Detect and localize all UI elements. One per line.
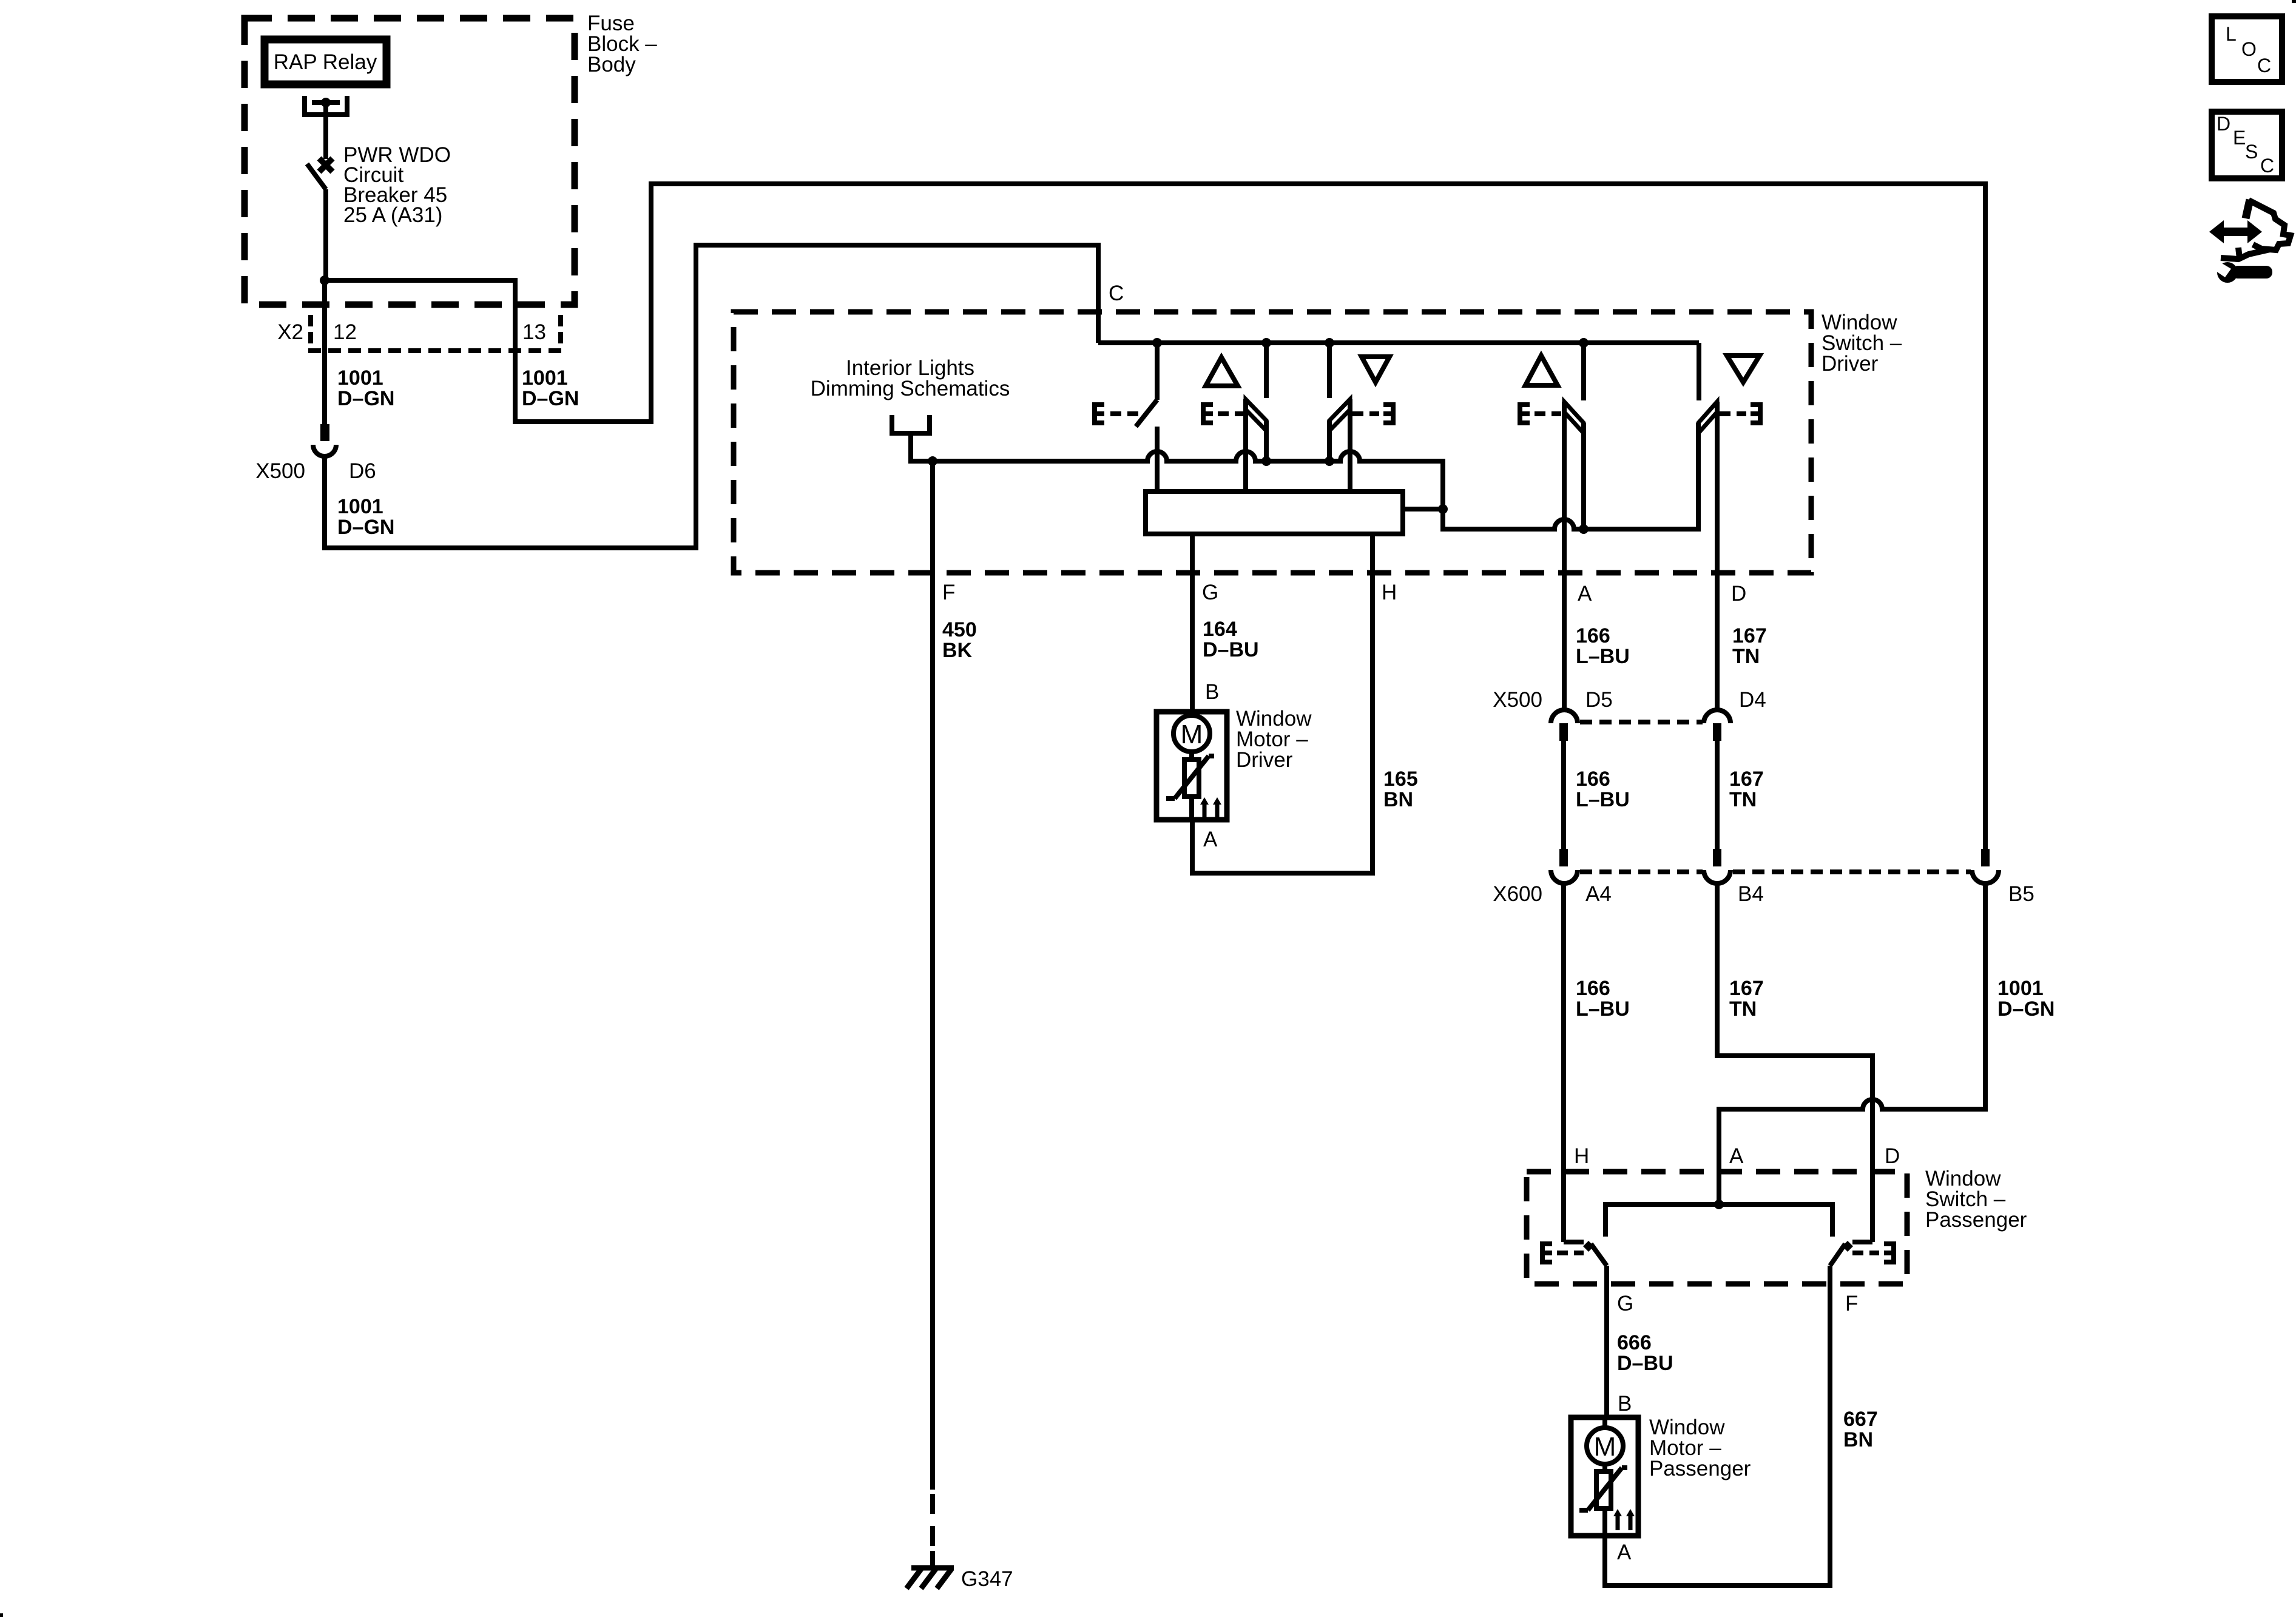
svg-text:BN: BN [1843,1428,1873,1451]
pin D6 label [349,459,376,483]
label: X600 [1493,882,1542,906]
svg-text:D5: D5 [1585,688,1613,712]
node: plate stub junction [1438,504,1448,514]
wire label 666 D-BU [1617,1331,1673,1375]
pin 12 label [333,320,357,344]
wire 1001 D-GN from B5 to passenger switch pin A [1719,881,1985,1204]
circuit breaker 45 (PWR WDO) [307,158,333,280]
switch contact 3 (driver down) [1329,343,1350,491]
svg-text:M: M [1594,1432,1616,1462]
svg-text:C: C [2257,55,2271,76]
mechanical link bracket mirrored (contact 3) [1352,405,1393,423]
svg-text:L: L [2226,23,2237,45]
svg-text:E: E [2233,127,2246,149]
svg-text:X500: X500 [255,459,305,483]
dashed link X600 B4-B5 [1733,869,1971,874]
wire label 166 L-BU (mid) [1576,768,1630,811]
svg-text:666: 666 [1617,1331,1652,1354]
svg-text:Body: Body [587,53,636,76]
window switch driver box [734,312,1811,573]
connector X500 pin D4 [1704,710,1730,741]
svg-text:A: A [1578,582,1592,606]
connector X500 pin D6 [313,424,336,456]
label: pin A (driver switch) [1578,582,1592,606]
pin A4 label [1585,882,1612,906]
svg-text:164: 164 [1203,618,1237,641]
label: Fuse Block - Body [587,12,657,76]
svg-text:Driver: Driver [1236,748,1293,772]
connector X2 [308,315,563,351]
svg-text:165: 165 [1383,768,1418,791]
wire pin F (667 BN) from passenger switch [1605,1266,1830,1585]
svg-text:Passenger: Passenger [1925,1208,2027,1232]
node: flag contact 2 on common wire [1261,456,1271,466]
svg-text:166: 166 [1576,977,1610,1000]
mechanical link bracket mirrored (passenger down) [1852,1244,1894,1262]
interior lights connection bracket [890,415,933,461]
wire 166 L-BU from X600 to passenger switch pin H [1561,881,1566,1242]
window motor passenger M2 [1571,1417,1638,1536]
wire label 166 L-BU (above X500) [1576,624,1630,668]
internal contact plate rectangle [1146,491,1403,534]
svg-text:G: G [1202,581,1218,604]
svg-text:B: B [1618,1392,1632,1416]
svg-text:L–BU: L–BU [1576,788,1630,811]
node: passenger switch common junction [1714,1200,1724,1209]
relay RAP Relay box [265,39,387,84]
label: X500 [1493,688,1542,712]
pin 13 label [522,320,546,344]
svg-text:D–GN: D–GN [1997,998,2055,1021]
passenger switch common wire [1606,1204,1832,1237]
pin D5 label [1585,688,1613,712]
bus junction nodes [1152,338,1589,348]
node: contact A on common wire [1579,524,1589,534]
svg-text:L–BU: L–BU [1576,645,1630,668]
svg-text:X2: X2 [277,320,303,344]
wire pin H (driver switch to motor low side) [1192,534,1373,873]
wire 167 TN from X600 to passenger switch pin D [1717,881,1872,1242]
common wire from interior lights junction with hops [933,451,1443,509]
svg-text:X500: X500 [1493,688,1542,712]
svg-text:167: 167 [1729,768,1764,791]
svg-text:TN: TN [1729,998,1757,1021]
svg-text:F: F [1845,1292,1858,1315]
label: pin A (driver motor) [1203,828,1218,851]
wire label 450 BK [942,618,977,662]
mechanical link bracket E (contact 2) [1203,405,1244,423]
wire label 1001 D-GN (pin 12) [337,366,394,410]
passenger switch down contact (D side) [1830,1241,1872,1266]
label: X500 (D6) [255,459,305,483]
svg-text:L–BU: L–BU [1576,998,1630,1021]
svg-text:M: M [1181,720,1203,749]
connector X600 pin B5 [1972,849,1999,883]
switch contact 2 (driver up) [1246,343,1266,491]
wire label 164 D-BU [1203,618,1259,661]
svg-text:D: D [1731,582,1746,606]
window switch passenger box [1527,1172,1907,1284]
dashed link X600 A4-B4 [1580,869,1703,874]
ground G347 [907,1551,954,1588]
svg-text:S: S [2245,141,2258,163]
label: pin A (passenger switch) [1729,1144,1744,1168]
svg-text:A: A [1617,1541,1632,1564]
wire 450 BK dashed section to ground [930,1494,935,1557]
wire label 167 TN (above X500) [1732,624,1767,668]
svg-text:TN: TN [1732,645,1760,668]
label: pin F (passenger switch) [1845,1292,1858,1315]
pin D4 label [1739,688,1766,712]
wire label 167 TN (below X600) [1729,977,1764,1021]
wire label 1001 D-GN (pin 13) [522,366,579,410]
svg-text:O: O [2241,38,2257,60]
node: interior lights / pin F junction [928,456,937,466]
icon: double arrow with schematic outline [2209,200,2291,259]
svg-text:450: 450 [942,618,977,641]
svg-text:1001: 1001 [1997,977,2044,1000]
mechanical link bracket E (contact A) [1520,405,1561,423]
svg-text:RAP Relay: RAP Relay [274,50,377,74]
svg-text:25 A (A31): 25 A (A31) [343,203,442,227]
wire 1001 D-GN via pin 13 to top run and B5 [325,184,1985,849]
svg-text:Driver: Driver [1822,352,1879,376]
mechanical link bracket mirrored (contact D) [1720,405,1760,423]
svg-text:C: C [1109,282,1124,305]
label: pin H (passenger switch) [1574,1144,1589,1168]
wire 1001 D-GN pin 12 down [322,280,327,424]
svg-text:13: 13 [522,320,546,344]
svg-text:D–GN: D–GN [522,387,579,410]
svg-text:667: 667 [1843,1408,1878,1431]
up triangle (driver window up) [1206,357,1238,386]
svg-text:D–GN: D–GN [337,387,394,410]
stub from plate to common wire [1403,507,1443,511]
wire 166 L-BU between X500 and X600 [1561,741,1566,849]
label: Window Switch - Passenger [1925,1167,2027,1232]
mechanical link bracket E (contact 1) [1095,405,1138,423]
svg-text:H: H [1382,581,1397,604]
svg-text:D–GN: D–GN [337,516,394,539]
svg-text:D: D [1885,1144,1900,1168]
up triangle (passenger window up, driver switch) [1525,356,1558,385]
wire pin G (666 D-BU) to passenger motor [1604,1266,1609,1419]
svg-text:TN: TN [1729,788,1757,811]
wire label 1001 D-GN (below B5) [1997,977,2055,1021]
label: pin H [1382,581,1397,604]
svg-text:F: F [942,581,955,604]
label: X2 [277,320,303,344]
svg-text:B5: B5 [2008,882,2034,906]
label: Window Motor - Passenger [1649,1416,1751,1480]
passenger switch up contact (H side) [1564,1241,1607,1266]
fuse block box: Fuse Block - Body [245,18,575,305]
svg-text:B: B [1205,680,1219,704]
down triangle (driver window down) [1362,357,1389,382]
svg-text:12: 12 [333,320,357,344]
mechanical link bracket E (passenger up) [1542,1244,1584,1262]
page corner mark top right [2292,0,2296,3]
icon: DESC box [2212,112,2282,178]
svg-text:166: 166 [1576,624,1610,647]
relay contact symbol [302,96,349,159]
pin B5 label [2008,882,2034,906]
switch contact A (passenger up, driver switch) [1564,343,1584,711]
svg-text:1001: 1001 [337,366,383,390]
dashed link X500 [1580,720,1703,724]
svg-text:A: A [1729,1144,1744,1168]
label: Window Motor - Driver [1236,707,1312,772]
label: Interior Lights Dimming Schematics [811,356,1010,400]
label: pin A (passenger motor) [1617,1541,1632,1564]
wire pin G (driver switch to motor) [1190,534,1195,713]
wire label 167 TN (mid) [1729,768,1764,811]
svg-text:D: D [2217,113,2230,135]
pin B4 label [1738,882,1764,906]
svg-text:D6: D6 [349,459,376,483]
icon: LOC box [2212,16,2282,82]
svg-text:G: G [1617,1292,1633,1315]
down triangle (passenger window down, driver switch) [1727,356,1760,382]
junction node at breaker output [320,275,329,285]
label: pin G [1202,581,1218,604]
svg-text:X600: X600 [1493,882,1542,906]
label: pin D (driver switch) [1731,582,1746,606]
svg-text:H: H [1574,1144,1589,1168]
page corner mark bottom left [0,1613,3,1617]
svg-text:C: C [2260,155,2274,177]
connector X600 pin B4 [1704,849,1730,883]
icon: wrench [2212,260,2272,283]
svg-text:167: 167 [1729,977,1764,1000]
svg-text:D–BU: D–BU [1203,638,1259,661]
label: pin B (passenger motor) [1618,1392,1632,1416]
svg-text:G347: G347 [961,1567,1013,1591]
svg-text:D4: D4 [1739,688,1766,712]
bus wire from pin C inside driver switch [1098,340,1699,345]
connector X500 pin D5 [1551,710,1578,741]
connector X600 pin A4 [1551,849,1578,883]
svg-text:BK: BK [942,639,973,662]
svg-text:A: A [1203,828,1218,851]
switch contact 1 (driver lockout) [1136,343,1157,491]
label: pin D (passenger switch) [1885,1144,1900,1168]
label: Window Switch - Driver [1822,311,1902,376]
svg-text:167: 167 [1732,624,1767,647]
svg-text:BN: BN [1383,788,1413,811]
wire 167 TN between X500 and X600 [1715,741,1720,849]
svg-text:D–BU: D–BU [1617,1352,1673,1375]
label: pin G (passenger switch) [1617,1292,1633,1315]
wire label 165 BN [1383,768,1418,811]
wire label 1001 D-GN (below D6) [337,495,394,539]
window motor driver M1 [1156,712,1227,820]
node: flag contact 3 on common wire [1325,456,1334,466]
label: G347 [961,1567,1013,1591]
wire 1001 D-GN from D6 to window switch pin C [325,245,1098,548]
label: pin F [942,581,955,604]
svg-text:B4: B4 [1738,882,1764,906]
switch contact D (passenger down, driver switch) [1698,343,1717,711]
label: PWR WDO Circuit Breaker 45 25 A (A31) [343,143,451,227]
wire pin F (450 BK) down from junction [930,461,935,1490]
svg-text:1001: 1001 [337,495,383,518]
wire label 166 L-BU (below X600) [1576,977,1630,1021]
svg-text:Passenger: Passenger [1649,1457,1751,1480]
svg-text:A4: A4 [1585,882,1612,906]
svg-text:166: 166 [1576,768,1610,791]
common wire continues to passenger side of switch [1443,423,1698,529]
svg-text:1001: 1001 [522,366,568,390]
wire label 667 BN [1843,1408,1878,1451]
label: pin C [1109,282,1124,305]
label: pin B (driver motor) [1205,680,1219,704]
svg-text:Dimming Schematics: Dimming Schematics [811,377,1010,400]
